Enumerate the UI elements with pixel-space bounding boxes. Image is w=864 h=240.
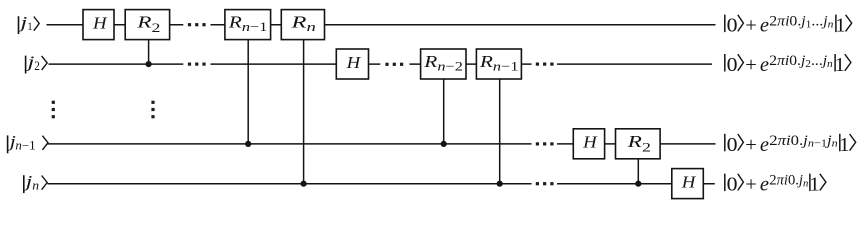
cdots q2 third [536, 63, 554, 66]
ket jn input [23, 172, 47, 193]
gate H qn-1 [573, 129, 604, 159]
svg-text:e: e [760, 174, 769, 196]
svg-text:1: 1 [835, 54, 845, 76]
svg-text:2πi0.j1...jn: 2πi0.j1...jn [769, 14, 834, 31]
control dot Rn-2 on qn-1 [441, 141, 447, 147]
wire qn-1 segment right [557, 143, 716, 145]
control dot Rn-1 on qn [497, 181, 503, 187]
gate R2 q1 [125, 10, 169, 40]
svg-text:0: 0 [727, 54, 738, 76]
svg-text:+: + [745, 54, 757, 76]
svg-text:1: 1 [809, 174, 819, 196]
svg-text:H: H [345, 53, 362, 72]
output label q2 [725, 53, 851, 76]
cdots q1 [188, 23, 206, 26]
gate H q2 [336, 49, 368, 79]
ket j1 input [17, 13, 39, 34]
gate Rn-1 q1 [225, 10, 271, 40]
svg-text:+: + [745, 134, 757, 156]
svg-text:2πi0.j2...jn: 2πi0.j2...jn [769, 53, 833, 70]
gate H q1 [83, 10, 114, 40]
control line Rn q1->qn [303, 40, 305, 184]
svg-text:e: e [760, 134, 769, 156]
cdots q2 second [385, 63, 403, 66]
svg-text:n: n [32, 178, 39, 192]
wire q2 segment 2 [211, 63, 381, 65]
wire q1 segment right [211, 24, 716, 26]
control line Rn-1 q2->qn [499, 79, 501, 183]
svg-text:1: 1 [839, 134, 849, 156]
control line Rn-1 q1->qn-1 [247, 40, 249, 144]
vdots left [52, 101, 55, 119]
output label qn [725, 173, 826, 196]
ket jn-1 input [7, 132, 48, 153]
svg-text:n−1: n−1 [15, 139, 35, 153]
svg-text:0: 0 [727, 15, 738, 37]
wire q2 segment 4 [557, 63, 712, 65]
svg-text:1: 1 [27, 19, 32, 33]
control line Rn-2 q2->qn-1 [443, 79, 445, 144]
wire q2 segment 1 [49, 63, 184, 65]
svg-text:H: H [92, 13, 109, 32]
control dot Rn on qn [301, 181, 307, 187]
gate Rn-2 q2 [421, 49, 466, 79]
svg-text:e: e [760, 15, 769, 37]
control dot R2 on q2 [146, 61, 152, 67]
svg-text:+: + [745, 174, 757, 196]
output label qn-1 [725, 133, 856, 156]
svg-text:H: H [681, 172, 698, 191]
gate H qn [672, 169, 704, 199]
control line R2 qn-1->qn [637, 159, 639, 184]
gate Rn q1 [281, 10, 324, 40]
gate R2 qn-1 [616, 129, 661, 159]
wire qn-1 segment left [48, 143, 532, 145]
svg-text:1: 1 [835, 15, 845, 37]
control dot R2 on qn [635, 181, 641, 187]
svg-text:+: + [745, 15, 757, 37]
svg-text:2πi0.jn−1jn: 2πi0.jn−1jn [769, 133, 838, 150]
output label q1 [725, 14, 852, 37]
wire qn segment left [48, 183, 532, 185]
wire qn segment right [557, 183, 715, 185]
svg-text:e: e [760, 54, 769, 76]
svg-text:2πi0.jn: 2πi0.jn [769, 173, 808, 190]
svg-text:0: 0 [727, 174, 738, 196]
wire q1 segment left [47, 24, 184, 26]
ket j2 input [25, 52, 48, 73]
svg-text:H: H [582, 133, 599, 152]
vdots under R2 [151, 101, 154, 119]
cdots qn [536, 182, 554, 185]
control line R2 q1->q2 [148, 40, 150, 65]
cdots qn-1 [536, 142, 554, 145]
svg-text:2: 2 [34, 59, 40, 73]
cdots q2 first [188, 63, 206, 66]
svg-text:0: 0 [727, 134, 738, 156]
wire q2 segment 3 [410, 63, 532, 65]
gate Rn-1 q2 [476, 49, 521, 79]
control dot Rn-1 on qn-1 [245, 141, 251, 147]
